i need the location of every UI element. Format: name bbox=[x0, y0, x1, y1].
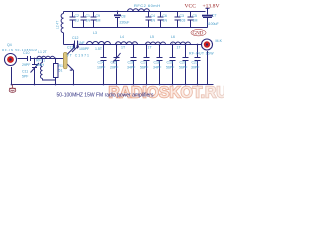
svg-text:C12: C12 bbox=[72, 36, 78, 40]
svg-text:C8: C8 bbox=[121, 15, 126, 19]
svg-text:C15: C15 bbox=[111, 61, 117, 65]
svg-text:56PF: 56PF bbox=[140, 66, 148, 70]
svg-text:1U: 1U bbox=[75, 19, 80, 23]
svg-text:1N: 1N bbox=[151, 19, 156, 23]
svg-text:56PF: 56PF bbox=[166, 66, 174, 70]
svg-text:220uF: 220uF bbox=[120, 21, 130, 25]
svg-text:100PF: 100PF bbox=[79, 47, 89, 51]
svg-text:5PF: 5PF bbox=[22, 75, 28, 79]
svg-text:20PF: 20PF bbox=[110, 66, 118, 70]
svg-text:10PF: 10PF bbox=[97, 66, 105, 70]
svg-text:51: 51 bbox=[59, 69, 63, 73]
svg-text:C6: C6 bbox=[163, 14, 168, 18]
svg-text:C19: C19 bbox=[167, 61, 173, 65]
svg-text:34PF: 34PF bbox=[153, 66, 161, 70]
svg-text:1N: 1N bbox=[163, 19, 168, 23]
svg-text:L1 2T: L1 2T bbox=[38, 50, 48, 54]
svg-text:RFC1: RFC1 bbox=[36, 59, 45, 63]
svg-text:29PF: 29PF bbox=[22, 63, 30, 67]
svg-text:L4: L4 bbox=[120, 35, 124, 39]
svg-text:Q4: Q4 bbox=[7, 43, 12, 47]
svg-text:L6: L6 bbox=[171, 35, 175, 39]
svg-text:C7: C7 bbox=[212, 14, 217, 18]
svg-text:C2: C2 bbox=[75, 14, 80, 18]
svg-text:+13.8V: +13.8V bbox=[203, 4, 220, 10]
svg-text:C21: C21 bbox=[192, 61, 198, 65]
svg-text:RFC2 60mH: RFC2 60mH bbox=[134, 3, 160, 8]
svg-text:1N: 1N bbox=[86, 19, 91, 23]
svg-text:9mH: 9mH bbox=[37, 63, 45, 67]
svg-text:C9: C9 bbox=[96, 14, 101, 18]
svg-text:30PF: 30PF bbox=[191, 66, 199, 70]
svg-text:C18: C18 bbox=[154, 61, 160, 65]
svg-text:1.5T: 1.5T bbox=[95, 47, 103, 51]
svg-text:C16: C16 bbox=[128, 61, 134, 65]
svg-text:C13: C13 bbox=[67, 46, 73, 50]
svg-text:C14: C14 bbox=[98, 61, 104, 65]
svg-text:C3: C3 bbox=[180, 14, 185, 18]
svg-text:VT C1971: VT C1971 bbox=[67, 54, 90, 58]
svg-text:50-100MHZ 15W FM radio power a: 50-100MHZ 15W FM radio power amplifiers bbox=[57, 92, 154, 98]
svg-text:C4: C4 bbox=[151, 14, 156, 18]
svg-text:1NF: 1NF bbox=[78, 41, 85, 45]
svg-text:34PF: 34PF bbox=[127, 66, 135, 70]
svg-text:L3: L3 bbox=[93, 31, 97, 35]
svg-text:C17: C17 bbox=[141, 61, 147, 65]
svg-text:VCC: VCC bbox=[185, 4, 197, 10]
svg-text:RF-IN 50-108MHZ: RF-IN 50-108MHZ bbox=[2, 48, 37, 52]
svg-text:C5: C5 bbox=[193, 14, 198, 18]
svg-text:M-K: M-K bbox=[216, 39, 223, 43]
svg-text:C11: C11 bbox=[22, 70, 28, 74]
svg-text:RF-OUT 15W: RF-OUT 15W bbox=[189, 52, 214, 56]
svg-text:1M: 1M bbox=[193, 19, 198, 23]
svg-text:L2 4T: L2 4T bbox=[56, 21, 60, 29]
svg-text:C20: C20 bbox=[180, 61, 186, 65]
svg-text:103: 103 bbox=[180, 19, 186, 23]
svg-text:1M: 1M bbox=[96, 19, 101, 23]
svg-text:1100uF: 1100uF bbox=[207, 22, 219, 26]
svg-text:L5: L5 bbox=[150, 35, 154, 39]
svg-text:R1: R1 bbox=[59, 64, 64, 68]
svg-text:56PF: 56PF bbox=[179, 66, 187, 70]
svg-text:C10: C10 bbox=[23, 51, 29, 55]
svg-text:C1: C1 bbox=[86, 14, 91, 18]
